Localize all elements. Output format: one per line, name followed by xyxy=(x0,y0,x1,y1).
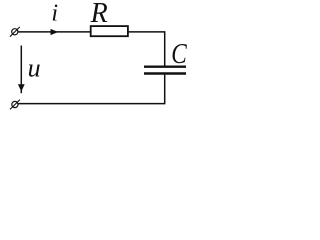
wire bottom (capacitor down, corner, left to terminal) xyxy=(18,75,165,104)
capacitor C plates xyxy=(144,67,186,74)
wire top-right with corner down to capacitor xyxy=(128,32,165,66)
terminal T1 (top left, slashed circle) xyxy=(10,27,20,37)
svg-text:C: C xyxy=(171,38,187,70)
svg-text:u: u xyxy=(28,54,41,83)
svg-text:R: R xyxy=(90,0,108,29)
voltage arrow u (line) xyxy=(20,46,22,94)
resistor R xyxy=(91,26,128,36)
current arrow i xyxy=(51,29,59,35)
svg-text:i: i xyxy=(51,0,58,26)
wire top-left (terminal to resistor) xyxy=(18,31,91,33)
terminal T2 (bottom left, slashed circle) xyxy=(10,100,20,110)
voltage arrow u (head) xyxy=(18,84,25,91)
